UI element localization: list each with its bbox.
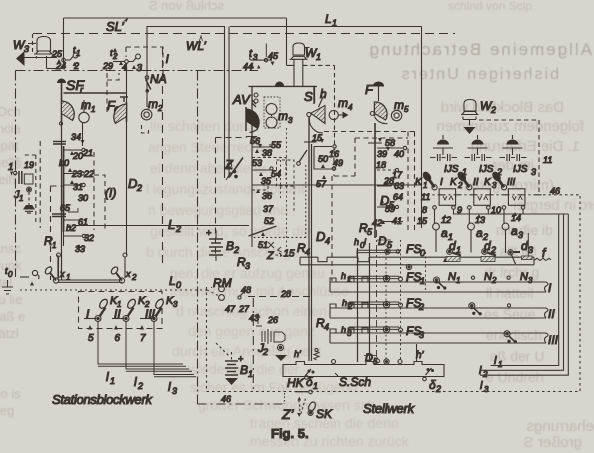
svg-text:+: +: [206, 228, 211, 238]
key K3': [484, 171, 525, 205]
svg-text:30: 30: [78, 193, 88, 203]
coil m2: [141, 97, 163, 120]
svg-text:42: 42: [372, 218, 382, 228]
svg-text:1: 1: [498, 360, 502, 369]
wire contact-2 vertical: [126, 64, 128, 256]
svg-text:h: h: [342, 298, 347, 308]
svg-text:3: 3: [172, 386, 177, 396]
svg-text:1: 1: [91, 105, 95, 114]
svg-text:28: 28: [280, 289, 291, 299]
wire left dashdot vertical: [15, 71, 17, 278]
svg-text:h: h: [320, 87, 327, 101]
svg-text:21: 21: [82, 148, 93, 158]
coils a1 a2 a3: [433, 223, 523, 242]
lever Z (AV): [224, 157, 243, 180]
svg-text:N: N: [520, 271, 528, 283]
svg-text:el denn aber die er: el denn aber die er: [150, 160, 267, 176]
svg-text:Z: Z: [266, 250, 275, 262]
arrow on SL wire: [124, 18, 129, 23]
earth US2: [465, 135, 492, 161]
wire dashed W1 to AV: [303, 65, 335, 150]
svg-text:h: h: [354, 237, 359, 247]
svg-text:x: x: [125, 269, 131, 279]
battery B2: [206, 228, 239, 261]
svg-text:2: 2: [233, 245, 239, 255]
svg-text:1: 1: [456, 276, 460, 285]
svg-text:2: 2: [262, 347, 268, 357]
wire dashdot K' row: [422, 194, 544, 196]
wire L2: [75, 225, 249, 227]
contact 25/24/2: [51, 45, 80, 71]
svg-text:29: 29: [102, 61, 113, 71]
contact t3 45/44: [243, 44, 279, 72]
svg-text:S.Sch: S.Sch: [339, 375, 371, 389]
svg-text:2: 2: [136, 183, 142, 193]
svg-text:großer S: großer S: [524, 434, 582, 451]
svg-text:5: 5: [88, 333, 94, 344]
svg-text:bisherigen Unters: bisherigen Unters: [400, 66, 559, 83]
svg-text:2: 2: [347, 302, 353, 311]
svg-text:AV: AV: [232, 92, 251, 107]
contact Z' SK: [281, 390, 333, 422]
verticals through bars: [358, 243, 370, 362]
svg-text:1: 1: [332, 18, 337, 28]
wire dashed chain box: [51, 186, 63, 280]
bell W1: [287, 43, 322, 87]
svg-text:SK: SK: [316, 407, 333, 421]
svg-text:d: d: [484, 239, 491, 253]
svg-text:m: m: [338, 96, 348, 110]
svg-text:iOch: iOch: [0, 104, 21, 119]
svg-text:40: 40: [394, 149, 404, 159]
relay AV assembly: [232, 82, 317, 137]
svg-text:Z’: Z’: [281, 406, 295, 422]
svg-text:3: 3: [484, 385, 489, 394]
svg-text:63: 63: [394, 181, 404, 191]
svg-text:Allgemeine Betrachtung: Allgemeine Betrachtung: [367, 40, 592, 59]
svg-text:2: 2: [482, 370, 488, 379]
svg-text:L: L: [169, 274, 176, 288]
svg-text:HK: HK: [287, 376, 305, 390]
relay SFr: [57, 77, 127, 125]
svg-text:e Undreh: e Undreh: [486, 369, 544, 385]
svg-text:a: a: [511, 224, 518, 238]
svg-text:Stellwerk: Stellwerk: [363, 401, 416, 416]
svg-text:III: III: [548, 333, 559, 347]
wire dashed AV enclosure: [216, 138, 247, 259]
svg-text:46: 46: [550, 186, 560, 196]
contact chain AV 56-35: [246, 136, 286, 186]
svg-text:2: 2: [137, 381, 143, 391]
wire L1: [230, 27, 422, 229]
key K2: [112, 295, 150, 344]
earth US1: [430, 135, 457, 161]
svg-text:sicher es im Fall genügend: sicher es im Fall genügend: [190, 379, 357, 395]
svg-text:3: 3: [173, 300, 178, 309]
svg-text:Das Blockfeld wird: Das Blockfeld wird: [441, 99, 564, 116]
key K3: [140, 295, 178, 344]
contact NA: [145, 72, 166, 92]
wire dotted 46 right: [543, 195, 580, 392]
bell W3: [13, 34, 63, 69]
capacitor C-left-2: [52, 214, 66, 217]
svg-text:31: 31: [73, 182, 83, 192]
svg-text:lieg: lieg: [0, 403, 14, 418]
svg-text:N: N: [484, 271, 492, 283]
key K2': [450, 171, 490, 205]
svg-text:3: 3: [419, 330, 424, 340]
contact t2 29/4/3: [102, 48, 143, 74]
svg-text:15: 15: [417, 216, 428, 226]
svg-text:1: 1: [76, 49, 80, 58]
relay S with arm h: [304, 87, 327, 134]
svg-text:D: D: [365, 352, 373, 364]
svg-text:46: 46: [221, 394, 231, 404]
relay F0: [107, 97, 128, 124]
wires a right bus: [454, 209, 569, 242]
svg-text:ΙJS: ΙJS: [479, 164, 494, 175]
svg-text:2: 2: [418, 302, 424, 312]
svg-text:11: 11: [421, 192, 430, 202]
circles under boxes: [433, 206, 437, 210]
svg-text:1: 1: [423, 181, 427, 190]
key K1: [84, 295, 121, 344]
svg-text:l: l: [168, 380, 171, 394]
capacitor C-left-1: [53, 142, 66, 145]
svg-text:1. Die Erfahrung: 1. Die Erfahrung: [471, 138, 580, 155]
svg-text:schlnd von Sclp: schlnd von Sclp: [448, 0, 532, 13]
contact box F (58..41): [359, 123, 428, 238]
svg-text:3: 3: [528, 245, 533, 255]
svg-text:20: 20: [72, 151, 83, 161]
svg-text:l legungszustande kommt: l legungszustande kommt: [146, 181, 305, 197]
svg-text:Ansc: Ansc: [0, 241, 21, 256]
wire mid bus: [252, 184, 422, 186]
svg-text:D: D: [316, 229, 325, 244]
svg-text:II: II: [473, 177, 479, 188]
svg-text:B: B: [240, 363, 248, 377]
battery B1: [216, 343, 253, 385]
svg-text:1: 1: [66, 273, 70, 282]
svg-text:55: 55: [271, 140, 282, 150]
svg-text:sätzl: sätzl: [0, 326, 19, 341]
wire dashdot horiz y70: [16, 70, 259, 72]
lever d2: [481, 239, 496, 262]
svg-text:eharrungs: eharrungs: [526, 418, 594, 435]
wire dashed frames mid: [324, 132, 415, 231]
svg-text:57: 57: [316, 179, 327, 189]
wire R4 vertical: [309, 185, 312, 361]
svg-text:3: 3: [492, 181, 497, 190]
lever d1: [443, 239, 461, 262]
svg-text:1: 1: [420, 276, 425, 286]
svg-text:l: l: [134, 375, 137, 389]
bell W2: [461, 99, 496, 134]
svg-text:N: N: [448, 271, 456, 283]
svg-text:0: 0: [420, 248, 425, 258]
wire rod x1-x2: [58, 280, 122, 282]
svg-text:WL’: WL’: [186, 39, 206, 53]
coil m4: [329, 96, 353, 120]
right margin column fragments: [484, 222, 553, 385]
svg-text:22: 22: [83, 169, 94, 179]
svg-text:angen Steuerrecht: angen Steuerrecht: [148, 139, 263, 155]
svg-text:1: 1: [456, 245, 461, 255]
svg-text:Stationsblockwerk: Stationsblockwerk: [52, 392, 153, 407]
svg-text:45: 45: [268, 51, 279, 61]
component RM: [213, 276, 251, 314]
slide bar HK S.Sch: [283, 344, 444, 394]
svg-text:3: 3: [253, 53, 258, 62]
svg-text:x: x: [59, 269, 65, 279]
svg-text:53: 53: [252, 158, 262, 168]
contact 36 37 52 51 column: [249, 185, 296, 262]
svg-text:58: 58: [385, 138, 395, 148]
svg-text:2: 2: [490, 105, 496, 115]
svg-text:1: 1: [347, 275, 351, 284]
svg-text:11: 11: [543, 155, 552, 165]
left margin column fragments: [0, 104, 25, 418]
svg-text:7: 7: [140, 333, 146, 344]
svg-text:a: a: [476, 226, 483, 240]
svg-text:SL’: SL’: [106, 19, 125, 34]
svg-text:2: 2: [457, 181, 463, 190]
coil m1: [79, 98, 96, 123]
svg-text:54: 54: [271, 169, 281, 179]
svg-text:(I): (I): [105, 186, 116, 200]
svg-text:47: 47: [225, 304, 236, 314]
svg-text:4: 4: [324, 322, 329, 332]
svg-text:ll hätteil: ll hätteil: [486, 285, 533, 301]
svg-text:lle schalten durch: lle schalten durch: [150, 118, 259, 134]
svg-text:h’: h’: [294, 349, 302, 359]
svg-text:RM: RM: [213, 276, 232, 290]
svg-text:33: 33: [75, 244, 85, 254]
svg-text:37: 37: [263, 204, 274, 214]
relay F: [365, 82, 388, 124]
svg-text:59: 59: [385, 204, 395, 214]
svg-text:34: 34: [71, 132, 81, 142]
svg-text:D: D: [128, 176, 137, 191]
svg-text:5: 5: [404, 105, 409, 114]
svg-text:3: 3: [24, 44, 29, 54]
svg-text:NA: NA: [150, 72, 167, 86]
svg-text:zu lie: zu lie: [0, 292, 22, 307]
svg-text:m: m: [81, 98, 91, 112]
svg-text:1: 1: [8, 162, 14, 173]
wire L0 dotted: [20, 290, 218, 296]
wire dashdot x197: [197, 71, 199, 405]
svg-text:3: 3: [137, 63, 143, 74]
wire dashed box I right edge: [162, 47, 164, 265]
svg-text:4: 4: [325, 236, 330, 246]
semaphore arm W3: [16, 51, 25, 66]
svg-text:1: 1: [313, 381, 318, 391]
contact t0: [5, 266, 39, 286]
svg-text:2: 2: [491, 276, 497, 285]
svg-text:52: 52: [264, 216, 274, 226]
svg-text:3: 3: [528, 276, 533, 285]
svg-text:18: 18: [376, 160, 386, 170]
svg-text:26: 26: [267, 315, 278, 325]
locking bar III: [330, 326, 559, 347]
svg-text:8: 8: [422, 205, 427, 215]
resistor h' zigzag: [294, 348, 319, 360]
wire WL box: [147, 27, 229, 179]
svg-text:0: 0: [176, 280, 181, 290]
svg-text:F: F: [365, 82, 374, 97]
svg-text:S: S: [304, 89, 313, 104]
svg-text:ΙJS: ΙJS: [513, 164, 528, 175]
svg-text:0: 0: [8, 270, 13, 279]
svg-text:h: h: [341, 271, 346, 281]
svg-text:64: 64: [393, 192, 403, 202]
svg-text:schluß von S: schluß von S: [149, 0, 224, 13]
faint text mid-page behind diagram: [146, 118, 410, 449]
locking bar I: [330, 275, 552, 295]
svg-text:1: 1: [19, 194, 23, 203]
node 15 bar0: [278, 247, 282, 252]
svg-text:2: 2: [435, 384, 441, 394]
wire dashed SL bus: [33, 33, 455, 35]
svg-text:ΙJS: ΙJS: [444, 164, 459, 175]
lever d3: [508, 233, 533, 264]
wire dashed t2 box: [107, 47, 163, 115]
svg-text:3: 3: [288, 116, 293, 125]
svg-text:daß e: daß e: [0, 309, 25, 324]
svg-text:19: 19: [24, 160, 34, 170]
mirrored show-through text, right column: [367, 40, 594, 451]
svg-text:Fig. 5.: Fig. 5.: [271, 426, 309, 441]
svg-text:39: 39: [377, 149, 387, 159]
svg-text:m: m: [148, 97, 158, 111]
svg-text:2: 2: [490, 245, 496, 255]
coil m3 pair: [264, 97, 293, 128]
wire SFr spine down: [58, 122, 62, 280]
svg-text:B: B: [226, 239, 234, 253]
keys K1 K2 K3 dashed base box: [79, 292, 163, 329]
svg-text:65: 65: [60, 203, 71, 213]
svg-text:m: m: [278, 109, 288, 123]
svg-text:38: 38: [262, 148, 272, 158]
svg-text:4: 4: [348, 103, 353, 112]
wire SL top: [64, 18, 287, 68]
svg-text:d: d: [449, 239, 456, 253]
key K1': [415, 171, 456, 205]
locking bar II: [330, 301, 555, 321]
svg-text:L: L: [325, 12, 332, 26]
svg-text:b0: b0: [59, 158, 69, 168]
contact 43 26: [249, 313, 278, 326]
wire m1 down: [82, 123, 84, 146]
lever x1: [44, 253, 70, 283]
svg-text:6: 6: [115, 333, 121, 344]
svg-text:δ: δ: [306, 375, 313, 389]
svg-text:51: 51: [258, 240, 268, 250]
contact box S (15/50/16/49/57): [252, 116, 343, 237]
svg-text:5: 5: [373, 357, 378, 366]
svg-text:I: I: [440, 177, 443, 188]
svg-text:so is: so is: [0, 386, 21, 401]
svg-text:Z: Z: [224, 157, 234, 172]
earth US3: [500, 135, 527, 161]
svg-text:1: 1: [52, 241, 56, 250]
svg-text:l: l: [106, 370, 109, 384]
svg-text:32: 32: [84, 233, 94, 243]
svg-text:50: 50: [318, 154, 328, 164]
component J2 transformer: [257, 329, 287, 361]
svg-text:h’: h’: [416, 350, 425, 361]
svg-text:a: a: [441, 226, 448, 240]
svg-text:1: 1: [110, 376, 115, 386]
ground left: [2, 280, 13, 294]
svg-text:III: III: [507, 177, 516, 188]
wire l1 l2 l3 from keys: [98, 321, 196, 376]
svg-text:incia: incia: [0, 121, 22, 136]
svg-text:3: 3: [531, 167, 536, 177]
svg-text:36: 36: [262, 191, 272, 201]
svg-text:1: 1: [316, 52, 321, 62]
component J1: [8, 141, 40, 228]
svg-text:L: L: [168, 217, 175, 232]
svg-text:d: d: [521, 239, 528, 253]
wire dashed W2: [479, 120, 539, 194]
locking bar FS0: [300, 246, 551, 265]
svg-text:15: 15: [284, 249, 296, 260]
big dashed enclosures: [198, 403, 284, 405]
svg-text:3: 3: [245, 261, 250, 271]
svg-text:25: 25: [51, 49, 63, 59]
coil m5: [391, 98, 409, 121]
svg-text:II: II: [548, 307, 555, 321]
svg-text:spät: spät: [0, 138, 19, 153]
svg-text:δ: δ: [429, 378, 436, 392]
svg-text:23: 23: [71, 169, 82, 179]
wires a to d levers: [435, 209, 506, 253]
svg-text:1: 1: [248, 369, 253, 379]
svg-text:2: 2: [131, 273, 137, 282]
relay contact chain (I): [59, 146, 116, 254]
lever x2: [110, 253, 137, 283]
